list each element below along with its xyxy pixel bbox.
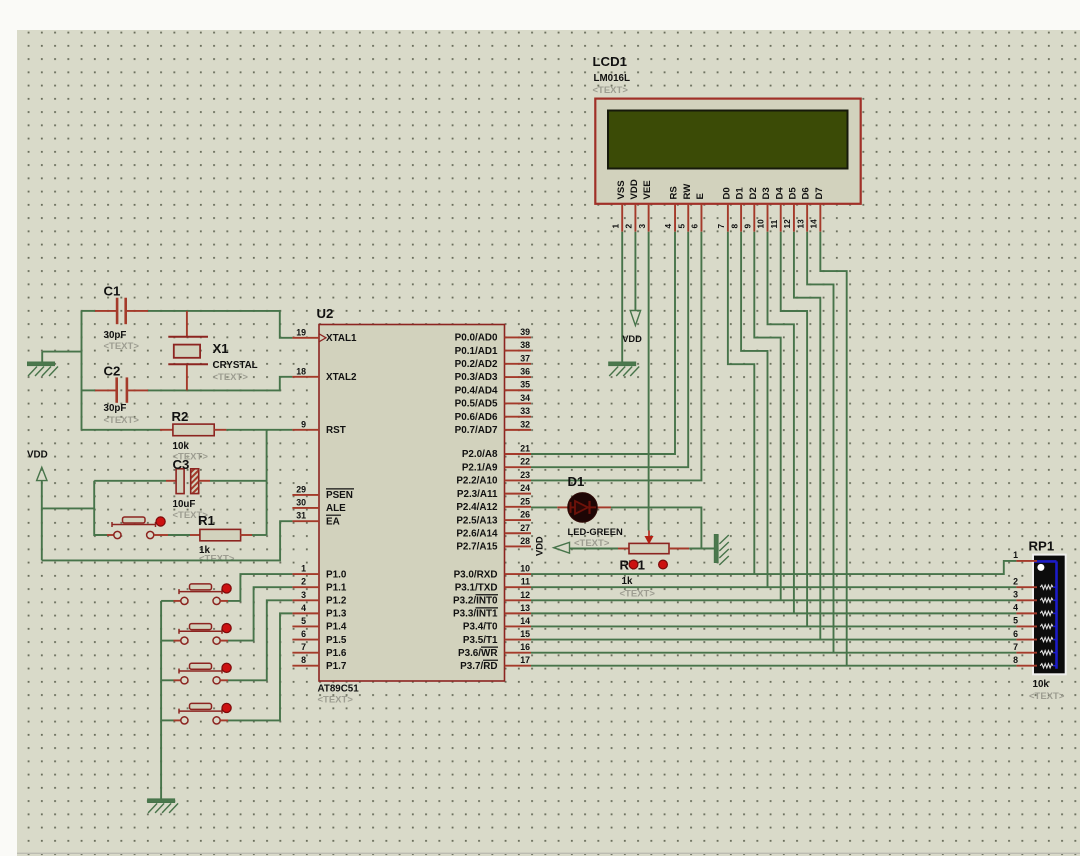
pin 18 stub (XTAL2) — [292, 376, 319, 378]
RP1 resistor element 5 — [1040, 624, 1053, 628]
lead: C2 left (red) — [95, 389, 116, 391]
svg-text:3: 3 — [1013, 589, 1018, 599]
pin 30 stub (ALE) — [292, 507, 319, 509]
wire: LCD D5 to P3.5 net — [794, 232, 820, 640]
lead: reset button right (red) — [154, 534, 168, 536]
pin 24 stub (P2.3/A11) — [505, 493, 532, 495]
ground (RV1, rotated) — [714, 535, 729, 566]
resistor R1 — [200, 529, 241, 540]
wire: P3.3 to RP1 pin4 — [531, 612, 1016, 614]
svg-text:14: 14 — [520, 616, 530, 626]
svg-text:1: 1 — [610, 224, 620, 229]
crystal X1 — [168, 337, 208, 365]
svg-text:P3.0/RXD: P3.0/RXD — [454, 569, 498, 580]
wire: C1 row, rail to C1 left lead — [82, 310, 96, 312]
power VDD arrow (LCD) — [630, 311, 640, 326]
pin 3 stub (P1.2) — [292, 599, 319, 601]
indicator dot (button 1) — [222, 584, 231, 593]
svg-text:11: 11 — [521, 577, 530, 587]
wire: LCD D0 to P3.0 net — [728, 232, 754, 574]
svg-text:P0.0/AD0: P0.0/AD0 — [455, 333, 498, 344]
svg-text:16: 16 — [520, 642, 530, 652]
svg-text:P1.4: P1.4 — [326, 622, 347, 633]
svg-text:XTAL2: XTAL2 — [326, 372, 357, 383]
pin 10 stub (P3.0/RXD) — [505, 573, 532, 575]
RV1 wiper arrow — [645, 531, 652, 544]
pin 7 stub (P1.6) — [292, 652, 319, 654]
pin 27 stub (P2.6/A14) — [505, 532, 532, 534]
pin 6 stub (P1.5) — [292, 639, 319, 641]
lead: RV1 left (red) — [618, 548, 629, 550]
wire: U2 P2.1 to LCD RW — [531, 232, 688, 468]
svg-text:LM016L: LM016L — [594, 73, 630, 84]
pin 22 stub (P2.1/A9) — [505, 466, 532, 468]
svg-text:4: 4 — [301, 603, 306, 613]
svg-text:24: 24 — [520, 483, 530, 493]
svg-text:<TEXT>: <TEXT> — [620, 589, 656, 600]
pin 25 stub (P2.4/A12) — [505, 506, 532, 508]
svg-text:R2: R2 — [172, 409, 189, 424]
pin 13 stub (P3.3/INT1) — [505, 612, 532, 614]
wire: RV1 right to ground — [689, 548, 714, 550]
svg-text:5: 5 — [1013, 616, 1018, 626]
svg-text:CRYSTAL: CRYSTAL — [213, 360, 258, 371]
lead: button 4 left (red) — [174, 719, 181, 721]
svg-text:P0.2/AD2: P0.2/AD2 — [455, 359, 498, 370]
wire: RST junction down to C3/R1 column — [266, 430, 268, 535]
indicator dot (button 4) — [222, 703, 231, 712]
svg-text:22: 22 — [520, 457, 530, 467]
LCD pin 5 stub (RW) — [687, 204, 689, 232]
wire: common rail to button 3 — [161, 679, 173, 681]
LCD pin 14 stub (D7) — [819, 204, 821, 232]
svg-text:17: 17 — [520, 655, 530, 665]
lead: R2 left (red) — [160, 429, 173, 431]
svg-text:30pF: 30pF — [104, 403, 127, 414]
svg-text:<TEXT>: <TEXT> — [104, 341, 140, 352]
wire: R2 to U2 RST — [226, 429, 292, 431]
svg-text:VSS: VSS — [616, 180, 627, 200]
svg-text:P3.1/TXD: P3.1/TXD — [455, 582, 498, 593]
lead: button 2 left (red) — [174, 640, 181, 642]
wire: P3.4 to RP1 pin5 — [531, 625, 1016, 627]
LCD pin 2 stub (VDD) — [634, 204, 636, 232]
lead: C2 right (red) — [127, 389, 148, 391]
push-button P1.1 (button 2) — [179, 624, 222, 645]
svg-text:39: 39 — [520, 327, 530, 337]
capacitor C2 — [117, 377, 127, 402]
lead: C1 left (red) — [95, 310, 116, 312]
pin 31 stub (EA) — [292, 520, 319, 522]
ground (oscillator) — [28, 362, 59, 376]
lead: R2 right (red) — [214, 429, 226, 431]
lead: X1 bottom (red) — [186, 364, 188, 390]
LCD pin 1 stub (VSS) — [621, 204, 623, 232]
pin 2 stub (P1.1) — [292, 586, 319, 588]
wire: common rail to button 2 — [161, 640, 173, 642]
capacitor C3 (electrolytic) — [176, 469, 199, 494]
LCD1 screen — [608, 111, 848, 169]
svg-text:RS: RS — [669, 186, 680, 200]
pin 9 stub (RST) — [292, 429, 319, 431]
svg-text:9: 9 — [301, 419, 306, 429]
svg-text:VDD: VDD — [622, 334, 642, 344]
svg-text:32: 32 — [520, 419, 530, 429]
svg-text:P3.4/T0: P3.4/T0 — [463, 622, 498, 633]
svg-text:D4: D4 — [774, 187, 785, 200]
LCD pin 13 stub (D6) — [806, 204, 808, 232]
svg-text:13: 13 — [795, 219, 805, 229]
resistor R2 — [173, 424, 214, 436]
LCD pin 11 stub (D4) — [780, 204, 782, 232]
pin 35 stub (P0.4/AD4) — [505, 389, 532, 391]
svg-text:P3.6/WR: P3.6/WR — [458, 648, 498, 659]
pin 15 stub (P3.5/T1) — [505, 639, 532, 641]
wire: P3.6 to RP1 pin7 — [531, 652, 1016, 654]
svg-text:8: 8 — [301, 655, 306, 665]
svg-text:P2.2/A10: P2.2/A10 — [456, 476, 498, 487]
wire: VDD rail down — [41, 481, 43, 561]
svg-text:P2.7/A15: P2.7/A15 — [456, 542, 498, 553]
svg-text:<TEXT>: <TEXT> — [199, 554, 235, 565]
svg-text:29: 29 — [296, 484, 306, 494]
svg-text:U2: U2 — [317, 306, 334, 321]
svg-text:18: 18 — [296, 366, 306, 376]
svg-text:P2.6/A14: P2.6/A14 — [456, 528, 498, 539]
lead: button 2 right (red) — [220, 640, 228, 642]
svg-text:P1.6: P1.6 — [326, 648, 347, 659]
svg-text:26: 26 — [520, 510, 530, 520]
indicator dot (RV1 right) — [659, 560, 668, 569]
svg-text:9: 9 — [743, 224, 753, 229]
wire: reset column down to button — [94, 481, 107, 535]
wire: button to R1 — [168, 534, 190, 536]
wire: P3.1 to RP1 pin2 — [531, 586, 1016, 588]
indicator dot (reset button) — [156, 517, 165, 526]
svg-text:D1: D1 — [568, 474, 585, 489]
svg-text:P0.1/AD1: P0.1/AD1 — [455, 346, 498, 357]
pin 5 stub (P1.4) — [292, 625, 319, 627]
RP1 resistor element 6 — [1040, 637, 1053, 641]
svg-text:37: 37 — [520, 353, 530, 363]
svg-text:27: 27 — [520, 523, 530, 533]
wire: P3.5 to RP1 pin6 — [531, 639, 1016, 641]
wire: button 3 to P1.2 — [228, 600, 292, 680]
overline P3.2/INT0 — [476, 594, 499, 596]
wire: button 1 to P1.0 — [228, 574, 292, 601]
wire: button 2 to P1.1 — [228, 587, 292, 640]
lead: button 4 right (red) — [220, 719, 228, 721]
svg-text:ALE: ALE — [326, 503, 346, 514]
svg-text:D2: D2 — [748, 187, 759, 199]
pin 21 stub (P2.0/A8) — [505, 453, 532, 455]
svg-text:8: 8 — [729, 224, 739, 229]
pin 26 stub (P2.5/A13) — [505, 519, 532, 521]
svg-text:34: 34 — [520, 393, 530, 403]
lead: reset button left (red) — [107, 534, 114, 536]
pin 28 stub (P2.7/A15) — [505, 545, 532, 547]
pin 19 stub (XTAL1) — [292, 337, 319, 339]
svg-text:2: 2 — [301, 577, 306, 587]
lead: C1 right (red) — [127, 310, 149, 312]
wire: common rail to button 4 — [161, 719, 173, 721]
pin 23 stub (P2.2/A10) — [505, 479, 532, 481]
wire: VDD tap to reset column — [42, 507, 94, 509]
svg-text:P0.6/AD6: P0.6/AD6 — [455, 412, 498, 423]
wire: LCD VSS to ground — [621, 232, 623, 363]
RP1 pin 4 stub (red) — [1016, 612, 1037, 614]
svg-text:8: 8 — [1013, 655, 1018, 665]
LCD1 body — [595, 99, 860, 204]
svg-text:5: 5 — [676, 224, 686, 229]
pin 34 stub (P0.5/AD5) — [505, 402, 532, 404]
svg-text:<TEXT>: <TEXT> — [593, 85, 629, 96]
wire: U2 P2.2 to LCD E — [531, 232, 701, 481]
svg-text:R1: R1 — [198, 513, 215, 528]
wire: U2 P2.4 to LED D1 — [531, 506, 557, 508]
LCD pin 12 stub (D5) — [793, 204, 795, 232]
svg-text:10k: 10k — [1033, 679, 1050, 690]
svg-text:RST: RST — [326, 425, 346, 436]
svg-text:28: 28 — [520, 536, 530, 546]
lead: C3 right (red) — [199, 480, 210, 482]
svg-text:P1.0: P1.0 — [326, 569, 347, 580]
pin 1 stub (P1.0) — [292, 573, 319, 575]
indicator dot (RV1 left) — [629, 560, 638, 569]
lead: button 3 right (red) — [220, 679, 228, 681]
svg-text:30: 30 — [296, 497, 306, 507]
RP1 pin 7 stub (red) — [1016, 652, 1037, 654]
lead: D1 right (red) — [598, 506, 612, 508]
LCD pin 4 stub (RS) — [674, 204, 676, 232]
svg-text:6: 6 — [301, 629, 306, 639]
svg-text:1: 1 — [301, 564, 306, 574]
lead: button 3 left (red) — [174, 679, 181, 681]
svg-text:10k: 10k — [173, 441, 190, 452]
power VDD arrow (RV1) — [554, 542, 570, 553]
wire: rail to R2 left lead — [82, 429, 161, 431]
svg-text:RP1: RP1 — [1029, 539, 1055, 554]
pin 37 stub (P0.2/AD2) — [505, 363, 532, 365]
svg-text:<TEXT>: <TEXT> — [1029, 691, 1065, 702]
push-button (reset) — [112, 517, 156, 539]
LCD pin 7 stub (D0) — [727, 204, 729, 232]
svg-text:3: 3 — [301, 590, 306, 600]
push-button P1.0 (button 1) — [179, 584, 222, 605]
svg-text:<TEXT>: <TEXT> — [104, 415, 140, 426]
lead: X1 top (red) — [186, 311, 188, 337]
LCD pin 3 stub (VEE) — [648, 204, 650, 232]
RP1 common bus (blue) — [1034, 561, 1057, 668]
svg-text:EA: EA — [326, 516, 340, 527]
svg-text:VDD: VDD — [27, 450, 48, 461]
LED D1 (LED-GREEN) — [568, 493, 598, 523]
wire: LCD D3 to P3.3 net — [768, 232, 794, 614]
pin 33 stub (P0.6/AD6) — [505, 416, 532, 418]
IC U2 AT89C51 body — [319, 325, 505, 682]
wire: buttons common vertical to ground — [160, 601, 162, 799]
svg-text:13: 13 — [520, 603, 530, 613]
ground (LCD VSS) — [609, 362, 640, 376]
svg-text:P1.5: P1.5 — [326, 635, 347, 646]
pin 8 stub (P1.7) — [292, 665, 319, 667]
pin 4 stub (P1.3) — [292, 612, 319, 614]
svg-text:P0.7/AD7: P0.7/AD7 — [455, 425, 498, 436]
wire: C3 right to junction column — [210, 480, 267, 482]
svg-text:LCD1: LCD1 — [593, 54, 627, 69]
wire: VDD column to C3 left lead — [94, 480, 166, 482]
svg-text:21: 21 — [520, 444, 530, 454]
svg-text:VDD: VDD — [535, 536, 545, 556]
svg-text:P1.7: P1.7 — [326, 661, 347, 672]
svg-text:D3: D3 — [761, 187, 772, 199]
overline P3.3/INT1 — [476, 607, 499, 609]
RP1 pin 3 stub (red) — [1016, 599, 1037, 601]
svg-text:P2.3/A11: P2.3/A11 — [457, 489, 498, 500]
svg-text:33: 33 — [520, 406, 530, 416]
wire: C2 row, rail to C2 left lead — [82, 389, 96, 391]
svg-text:31: 31 — [296, 511, 306, 521]
wire: LCD D2 to P3.2 net — [754, 232, 780, 601]
svg-text:VEE: VEE — [642, 180, 653, 200]
svg-text:D7: D7 — [814, 187, 825, 199]
wire: U2 P2.0 to LCD RS — [531, 232, 675, 454]
svg-text:P1.3: P1.3 — [326, 609, 347, 620]
lead: D1 left (red) — [557, 506, 569, 508]
pin 32 stub (P0.7/AD7) — [505, 429, 532, 431]
svg-text:E: E — [695, 193, 706, 200]
wire: VDD arrow to RV1 left — [570, 548, 619, 550]
RP1 pin 2 stub (red) — [1016, 586, 1037, 588]
push-button P1.3 (button 4) — [179, 703, 222, 724]
svg-text:RW: RW — [682, 183, 693, 200]
svg-text:15: 15 — [520, 629, 530, 639]
svg-text:7: 7 — [716, 224, 726, 229]
wire: P3.0 to RP1 pin1 — [531, 561, 1016, 574]
svg-text:D0: D0 — [721, 187, 732, 199]
lead: RV1 right (red) — [669, 548, 689, 550]
lead: button 1 right (red) — [220, 600, 228, 602]
svg-text:5: 5 — [301, 616, 306, 626]
wire: C2/X1 node to U2 XTAL2 — [148, 377, 292, 391]
wire: C1/X1 node to U2 XTAL1 — [148, 311, 292, 338]
svg-text:25: 25 — [520, 496, 530, 506]
wire: D1 cathode down to ground net — [611, 507, 701, 547]
svg-text:<TEXT>: <TEXT> — [318, 695, 354, 706]
wire: R1 right to junction column — [252, 534, 267, 536]
lead: C3 left (red) — [166, 480, 176, 482]
svg-text:35: 35 — [520, 380, 530, 390]
overline EA — [326, 514, 341, 516]
wire: button 4 to P1.3 — [228, 613, 292, 720]
RP1 resistor element 4 — [1040, 611, 1053, 615]
svg-text:1: 1 — [1013, 550, 1018, 560]
pin 39 stub (P0.0/AD0) — [505, 336, 532, 338]
svg-text:6: 6 — [1013, 629, 1018, 639]
RP1 resistor element 7 — [1040, 651, 1053, 655]
svg-text:D1: D1 — [735, 187, 746, 200]
RP1 pin 8 stub (red) — [1016, 665, 1037, 667]
pin 11 stub (P3.1/TXD) — [505, 586, 532, 588]
resistor pack RP1 body — [1033, 555, 1066, 675]
svg-text:P0.3/AD3: P0.3/AD3 — [455, 372, 498, 383]
overline P3.7/RD — [483, 659, 498, 661]
svg-text:P2.5/A13: P2.5/A13 — [456, 515, 498, 526]
lead: R1 right (red) — [240, 534, 252, 536]
indicator dot (button 3) — [222, 663, 231, 672]
lead: button 1 left (red) — [174, 600, 181, 602]
LCD pin 8 stub (D1) — [740, 204, 742, 232]
pin 14 stub (P3.4/T0) — [505, 625, 532, 627]
RP1 pin1 common dot — [1037, 564, 1044, 571]
wire: LCD D4 to P3.4 net — [781, 232, 807, 627]
wire: LCD D6 to P3.6 net — [807, 232, 833, 653]
indicator dot (button 2) — [222, 624, 231, 633]
svg-text:D6: D6 — [801, 187, 812, 199]
wire: P3.2 to RP1 pin3 — [531, 599, 1016, 601]
svg-text:P3.2/INT0: P3.2/INT0 — [453, 595, 498, 606]
wire: LCD D7 to P3.7 net — [820, 232, 846, 666]
power VDD arrow (left) — [37, 467, 47, 480]
svg-text:1k: 1k — [622, 576, 633, 587]
svg-text:12: 12 — [520, 590, 530, 600]
svg-text:19: 19 — [296, 327, 306, 337]
svg-text:AT89C51: AT89C51 — [318, 684, 360, 695]
svg-text:2: 2 — [1013, 576, 1018, 586]
svg-text:P1.2: P1.2 — [326, 595, 347, 606]
clock marker XTAL1 — [319, 334, 326, 342]
svg-text:6: 6 — [690, 224, 700, 229]
wire: left vertical rail C1-row to RST-row — [81, 311, 83, 430]
svg-text:C2: C2 — [104, 364, 121, 379]
RP1 pin 6 stub (red) — [1016, 639, 1037, 641]
svg-text:38: 38 — [520, 340, 530, 350]
svg-text:P3.5/T1: P3.5/T1 — [463, 635, 498, 646]
LCD pin 6 stub (E) — [700, 204, 702, 232]
wire: P3.7 to RP1 pin8 — [531, 665, 1016, 667]
svg-text:30pF: 30pF — [104, 330, 127, 341]
ground (buttons) — [148, 799, 179, 813]
svg-text:P2.1/A9: P2.1/A9 — [462, 462, 498, 473]
svg-text:P0.4/AD4: P0.4/AD4 — [455, 385, 498, 396]
wire: common rail to button 1 — [161, 600, 173, 602]
pin 36 stub (P0.3/AD3) — [505, 376, 532, 378]
wire: LCD VEE down to RV1 wiper — [648, 232, 650, 531]
wire: left ground riser — [41, 352, 43, 363]
pin 38 stub (P0.1/AD1) — [505, 350, 532, 352]
wire: rail to left ground — [42, 351, 81, 353]
lead: R1 left (red) — [190, 534, 200, 536]
RP1 pin 5 stub (red) — [1016, 625, 1037, 627]
svg-text:10: 10 — [756, 219, 766, 229]
svg-text:P3.3/INT1: P3.3/INT1 — [453, 609, 498, 620]
svg-text:C1: C1 — [104, 284, 121, 299]
svg-text:36: 36 — [520, 367, 530, 377]
RP1 resistor element 3 — [1040, 598, 1053, 602]
pin 16 stub (P3.6/WR) — [505, 652, 532, 654]
wire: LCD VDD to power arrow — [634, 232, 636, 311]
svg-text:4: 4 — [663, 224, 673, 229]
RP1 resistor element 2 — [1040, 585, 1053, 589]
svg-text:P2.0/A8: P2.0/A8 — [462, 449, 498, 460]
svg-text:10uF: 10uF — [173, 499, 196, 510]
wire: LCD D1 to P3.1 net — [741, 232, 767, 587]
svg-text:P0.5/AD5: P0.5/AD5 — [455, 399, 498, 410]
LCD pin 10 stub (D3) — [767, 204, 769, 232]
svg-text:3: 3 — [637, 224, 647, 229]
RP1 pin 1 stub (red) — [1016, 560, 1037, 562]
svg-text:<TEXT>: <TEXT> — [574, 538, 610, 549]
